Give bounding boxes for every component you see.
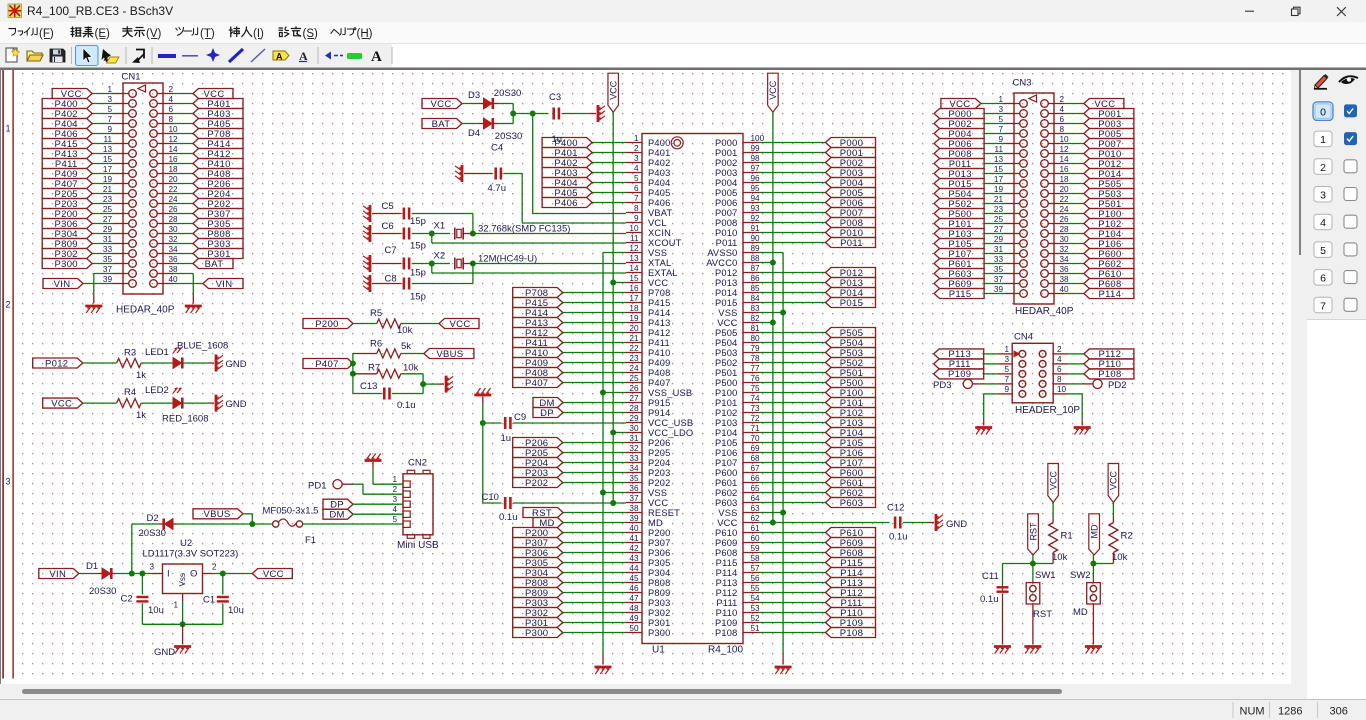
svg-text:HEDAR_40P: HEDAR_40P <box>116 305 175 316</box>
svg-text:P407: P407 <box>525 378 548 389</box>
svg-text:P406: P406 <box>648 198 671 208</box>
svg-text:P108: P108 <box>1098 369 1121 380</box>
svg-text:9: 9 <box>998 135 1003 144</box>
net label P304 (pin 29) + wire <box>92 233 113 235</box>
net label P405 (U1 pin 6) + wire <box>592 192 626 194</box>
svg-text:46: 46 <box>629 584 639 593</box>
svg-text:VCC: VCC <box>768 80 778 100</box>
net label P004 (pin 7) + wire <box>984 133 1004 135</box>
wire U1 pin62 VCC <box>759 522 773 524</box>
wire C1 to gnd rail <box>222 604 224 625</box>
wire node to C9 <box>483 422 502 424</box>
net label P411 (pin 15) + wire <box>92 163 113 165</box>
wire C2 to gnd rail <box>141 604 143 625</box>
wire CN1 pin38 to ground <box>173 273 193 275</box>
net label P407 (pin 19) + wire <box>92 183 113 185</box>
svg-text:15p: 15p <box>410 292 426 303</box>
U1 pin 40 stub/number/name <box>626 532 642 534</box>
svg-text:C13: C13 <box>360 381 377 392</box>
svg-text:P407: P407 <box>648 378 671 388</box>
svg-text:12M(HC49-U): 12M(HC49-U) <box>478 254 537 265</box>
net label P006 (U1 pin 94) + wire <box>759 202 826 204</box>
capacitor C4 <box>494 168 497 180</box>
CN1 pin 14 stub + circle <box>157 153 173 155</box>
CN3 pin 24 stub + circle <box>1048 213 1064 215</box>
ground right of LED2 <box>215 395 218 412</box>
wire gnd-C8 <box>372 283 402 285</box>
U1 pin 23 stub/number/name <box>626 362 642 364</box>
net label P302 (U1 pin 48) + wire <box>563 612 626 614</box>
ground left of C8 <box>369 275 372 292</box>
wire U1 pin63 VSS <box>759 512 783 514</box>
CN3 pin 8 stub + circle <box>1048 133 1064 135</box>
net label P100 (pin 24) + wire <box>1064 213 1084 215</box>
svg-text:P108: P108 <box>715 628 738 638</box>
ground left of C7 <box>369 255 372 272</box>
junction VBUS node <box>249 521 255 527</box>
svg-text:P106: P106 <box>715 448 738 458</box>
junction VCC right rail row82 <box>770 320 776 326</box>
svg-text:32: 32 <box>169 235 179 244</box>
U1 pin 33 stub/number/name <box>626 462 642 464</box>
svg-text:5: 5 <box>392 515 397 524</box>
CN3 pin 32 stub + circle <box>1048 253 1064 255</box>
net label DM (U1 pin 27) + wire <box>563 402 626 404</box>
U1 pin 31 stub/number/name <box>626 442 642 444</box>
svg-text:20S30: 20S30 <box>495 131 522 142</box>
resistor R1 <box>1049 523 1058 553</box>
svg-text:39: 39 <box>994 285 1004 294</box>
wire node down to C10 <box>482 423 484 503</box>
svg-text:34: 34 <box>1060 255 1070 264</box>
wire node to C3 and VBAT rail <box>513 113 548 115</box>
crystal X2 <box>454 258 456 270</box>
svg-text:P403: P403 <box>648 168 671 178</box>
net label P505 (U1 pin 81) + wire <box>759 332 826 334</box>
svg-text:P407: P407 <box>315 359 338 370</box>
svg-text:1u: 1u <box>501 433 512 444</box>
svg-text:2: 2 <box>392 485 397 494</box>
svg-text:18: 18 <box>1060 175 1070 184</box>
svg-text:4: 4 <box>634 164 639 173</box>
ground left of C5 <box>369 205 372 222</box>
wire LED1 to ground <box>183 362 209 364</box>
ground below CN4 right <box>1074 426 1091 429</box>
CN3 pin 25 stub + circle <box>1004 223 1020 225</box>
svg-text:53: 53 <box>751 604 761 613</box>
net label P109 (CN4 pin 5) + wire <box>934 369 984 379</box>
svg-text:40: 40 <box>1060 285 1070 294</box>
svg-text:X1: X1 <box>434 221 446 232</box>
net label P409 (pin 17) + wire <box>92 173 113 175</box>
CN3 pin 34 stub + circle <box>1048 263 1064 265</box>
svg-text:GND: GND <box>226 399 247 410</box>
net label P404 (U1 pin 5) + wire <box>592 182 626 184</box>
CN3 pin 13 stub + circle <box>1004 163 1020 165</box>
svg-text:63: 63 <box>751 504 761 513</box>
svg-text:42: 42 <box>629 544 639 553</box>
svg-text:P203: P203 <box>648 468 671 478</box>
svg-text:LED2: LED2 <box>145 385 169 396</box>
net label P010 (U1 pin 91) + wire <box>759 232 826 234</box>
svg-text:60: 60 <box>751 534 761 543</box>
wire C11 to ground <box>1002 594 1004 645</box>
svg-text:P301: P301 <box>648 618 671 628</box>
net label P108 (CN4 pin 6) + wire <box>1068 373 1084 375</box>
svg-text:33: 33 <box>629 454 639 463</box>
svg-text:26: 26 <box>169 205 179 214</box>
svg-text:51: 51 <box>751 624 761 633</box>
U1 pin 76 stub/number/name <box>743 382 759 384</box>
net label VCC (U2 out) <box>252 569 292 579</box>
U1 pin 97 stub/number/name <box>743 172 759 174</box>
svg-text:P012: P012 <box>715 268 738 278</box>
svg-text:P413: P413 <box>648 318 671 328</box>
net label P103 (U1 pin 72) + wire <box>759 422 826 424</box>
svg-text:25: 25 <box>994 215 1004 224</box>
CN3 pin 22 stub + circle <box>1048 203 1064 205</box>
net label P809 (pin 31) + wire <box>92 243 113 245</box>
CN4 pin 3 stub+number <box>997 363 1012 365</box>
wire input node to U2 <box>132 573 153 575</box>
svg-text:9: 9 <box>634 214 639 223</box>
svg-text:P300: P300 <box>648 628 671 638</box>
CN1 pin 36 stub + circle <box>157 263 173 265</box>
svg-text:P014: P014 <box>715 288 738 298</box>
net label P809 (U1 pin 46) + wire <box>563 592 626 594</box>
CN3 pin 17 stub + circle <box>1004 183 1020 185</box>
svg-text:7: 7 <box>634 194 639 203</box>
svg-text:C5: C5 <box>382 201 394 212</box>
svg-text:U2: U2 <box>180 538 192 549</box>
svg-text:10: 10 <box>629 224 639 233</box>
wire input node up to D2 <box>131 524 133 574</box>
net label P206 (pin 20) + wire <box>173 183 193 185</box>
svg-text:4: 4 <box>392 505 397 514</box>
junction X1 right <box>470 231 476 237</box>
svg-text:VSS: VSS <box>648 488 667 498</box>
U1 pin 48 stub/number/name <box>626 612 642 614</box>
svg-text:22: 22 <box>1060 195 1070 204</box>
CN3 pin 36 stub + circle <box>1048 273 1064 275</box>
regulator U2 body <box>163 564 203 594</box>
svg-text:VSS: VSS <box>648 248 667 258</box>
svg-text:P115: P115 <box>716 558 738 568</box>
U1 pin 38 stub/number/name <box>626 512 642 514</box>
U1 pin 4 stub/number/name <box>626 172 642 174</box>
capacitor C5 <box>403 208 406 220</box>
net label P610 (pin 36) + wire <box>1064 273 1084 275</box>
net label P200 (U1 pin 40) + wire <box>563 532 626 534</box>
CN1 pin 5 stub + circle <box>113 113 129 115</box>
svg-text:VCC: VCC <box>648 498 668 508</box>
net label P008 (pin 11) + wire <box>984 153 1004 155</box>
svg-text:MF050-3x1.5: MF050-3x1.5 <box>263 506 319 517</box>
wire gnd-C6 <box>372 233 402 235</box>
net label P412 (U1 pin 20) + wire <box>563 332 626 334</box>
svg-text:GND: GND <box>946 519 967 530</box>
svg-text:LED1: LED1 <box>145 347 169 358</box>
wire VBAT rail down to U1 pin8 <box>532 114 534 214</box>
svg-text:P107: P107 <box>715 458 738 468</box>
U1 pin 84 stub/number/name <box>743 302 759 304</box>
svg-text:NUM: NUM <box>1240 706 1265 718</box>
CN1 pin 10 stub + circle <box>157 133 173 135</box>
power symbol VCC (R2) <box>1108 464 1119 503</box>
svg-text:89: 89 <box>751 244 761 253</box>
svg-text:98: 98 <box>751 154 761 163</box>
svg-text:CN4: CN4 <box>1014 332 1033 343</box>
connector CN2 (Mini USB) body <box>403 474 433 535</box>
U1 pin 5 stub/number/name <box>626 182 642 184</box>
net label P410 (U1 pin 22) + wire <box>563 352 626 354</box>
svg-text:PD1: PD1 <box>308 481 326 492</box>
svg-text:P915: P915 <box>648 398 671 408</box>
svg-text:VIN: VIN <box>216 279 233 290</box>
U1 pin 64 stub/number/name <box>743 502 759 504</box>
switch SW2 <box>1092 564 1094 583</box>
CN1 pin 35 stub + circle <box>113 263 129 265</box>
U1 pin 71 stub/number/name <box>743 432 759 434</box>
svg-text:6: 6 <box>1057 365 1062 374</box>
svg-text:VCC: VCC <box>1109 471 1119 491</box>
svg-text:37: 37 <box>629 494 639 503</box>
wire D3/D4 cathodes join <box>498 103 514 105</box>
net label P405 (pin 8) + wire <box>173 123 193 125</box>
svg-text:P502: P502 <box>715 358 738 368</box>
CN4 pin 9 stub+number <box>997 393 1012 395</box>
svg-text:54: 54 <box>751 594 761 603</box>
svg-text:P108: P108 <box>840 628 863 639</box>
svg-text:VIN: VIN <box>54 279 71 290</box>
net label DP (U1 pin 28) + wire <box>563 412 626 414</box>
CN1 pin 39 stub + circle <box>113 283 129 285</box>
svg-text:D4: D4 <box>468 128 480 139</box>
svg-text:10k: 10k <box>1112 552 1128 563</box>
CN3 pin 14 stub + circle <box>1048 163 1064 165</box>
net label P005 (U1 pin 95) + wire <box>759 192 826 194</box>
net label P601 (pin 33) + wire <box>984 263 1004 265</box>
svg-text:SW2: SW2 <box>1070 570 1091 581</box>
svg-text:3: 3 <box>392 495 397 504</box>
U1 pin 70 stub/number/name <box>743 442 759 444</box>
svg-text:15: 15 <box>629 274 639 283</box>
svg-text:84: 84 <box>751 294 761 303</box>
U1 pin 15 stub/number/name <box>626 282 642 284</box>
ground right of R7 node <box>445 376 448 393</box>
junction VSS rail row36 <box>600 490 606 496</box>
net label P808 (pin 30) + wire <box>173 233 193 235</box>
net label P003 (pin 6) + wire <box>1064 123 1084 125</box>
CN3 pin 28 stub + circle <box>1048 233 1064 235</box>
svg-text:36: 36 <box>169 255 179 264</box>
svg-text:38: 38 <box>169 265 179 274</box>
svg-text:VCC: VCC <box>609 80 619 100</box>
svg-text:MD: MD <box>1073 607 1088 618</box>
svg-text:4.7u: 4.7u <box>488 183 507 194</box>
net label P301 (U1 pin 49) + wire <box>563 622 626 624</box>
net label P114 (U1 pin 57) + wire <box>759 572 826 574</box>
resistor R5 <box>377 319 401 328</box>
svg-text:VCL: VCL <box>648 218 667 228</box>
svg-text:24: 24 <box>169 195 179 204</box>
svg-text:P003: P003 <box>715 168 738 178</box>
svg-text:65: 65 <box>751 484 761 493</box>
CN3 pin 7 stub + circle <box>1004 133 1020 135</box>
svg-text:P602: P602 <box>715 488 738 498</box>
svg-text:P011: P011 <box>840 238 863 249</box>
U1 pin 52 stub/number/name <box>743 622 759 624</box>
svg-text:D1: D1 <box>86 561 98 572</box>
svg-text:76: 76 <box>751 374 761 383</box>
CN3 pin 35 stub + circle <box>1004 273 1020 275</box>
net label P110 (U1 pin 53) + wire <box>759 612 826 614</box>
svg-text:GND: GND <box>154 647 175 658</box>
wire CN4 pin9 to ground <box>984 393 998 395</box>
LED LED2 <box>173 398 182 409</box>
net label P112 (U1 pin 55) + wire <box>759 592 826 594</box>
junction diode node <box>510 111 516 117</box>
CN1 pin 25 stub + circle <box>113 213 129 215</box>
svg-text:P412: P412 <box>648 328 671 338</box>
wire U2 Vss pin down <box>182 594 184 602</box>
diode D3 <box>480 103 484 105</box>
net label P403 (pin 6) + wire <box>173 113 193 115</box>
CN1 pin 32 stub + circle <box>157 243 173 245</box>
CN1 pin 4 stub + circle <box>157 103 173 105</box>
wire VSS left rail <box>602 253 604 655</box>
wire C2 node down <box>141 574 143 595</box>
net label P408 (pin 18) + wire <box>173 173 193 175</box>
net label P407 + wire <box>303 359 353 369</box>
svg-text:7: 7 <box>998 125 1003 134</box>
svg-text:C2: C2 <box>121 594 133 605</box>
wire node to C10 <box>483 502 502 504</box>
svg-text:P113: P113 <box>716 578 738 588</box>
svg-text:57: 57 <box>751 564 761 573</box>
wire R1 to RST node <box>1052 553 1054 564</box>
svg-text:1: 1 <box>6 124 11 134</box>
wire node to ground <box>423 383 437 385</box>
U1 pin 60 stub/number/name <box>743 542 759 544</box>
CN3 pin 6 stub + circle <box>1048 123 1064 125</box>
wire U1 pin15 VCC <box>613 282 626 284</box>
wire node2 to R7 <box>353 373 377 375</box>
svg-text:9: 9 <box>1004 385 1009 394</box>
U1 pin 81 stub/number/name <box>743 332 759 334</box>
svg-text:75: 75 <box>751 384 761 393</box>
wire U1 pin26 VSS_USB <box>603 392 626 394</box>
svg-text:74: 74 <box>751 394 761 403</box>
CN4 pin 2 stub+number <box>1053 353 1068 355</box>
CN4 pin 10 stub+number <box>1053 393 1068 395</box>
svg-text:C11: C11 <box>982 571 999 582</box>
svg-text:25: 25 <box>103 205 113 214</box>
svg-text:VSS_USB: VSS_USB <box>648 388 692 398</box>
svg-text:6: 6 <box>1320 272 1326 284</box>
ground right of C12 <box>935 514 938 531</box>
svg-text:69: 69 <box>751 444 761 453</box>
CN3 pin 26 stub + circle <box>1048 223 1064 225</box>
svg-text:RST: RST <box>1033 609 1052 620</box>
net label P101 (U1 pin 74) + wire <box>759 402 826 404</box>
svg-text:VBUS: VBUS <box>203 509 230 520</box>
connector CN1 (HEDAR_40P) <box>42 72 243 316</box>
svg-text:52: 52 <box>751 614 761 623</box>
net label P305 (pin 28) + wire <box>173 223 193 225</box>
wire EXTAL elbow <box>431 264 433 274</box>
svg-text:32: 32 <box>629 444 639 453</box>
ground right of C3 <box>597 105 600 122</box>
resistor R7 <box>377 369 401 378</box>
svg-text:P109: P109 <box>948 369 971 380</box>
junction VCC rail row15 <box>610 280 616 286</box>
svg-text:1: 1 <box>1004 345 1009 354</box>
wire node1-node2 <box>352 364 354 374</box>
CN1 pin 2 stub + circle <box>157 93 173 95</box>
svg-text:10k: 10k <box>397 325 413 336</box>
wire SW2 to ground <box>1092 604 1094 645</box>
CN3 pin 19 stub + circle <box>1004 193 1020 195</box>
net label P109 (U1 pin 52) + wire <box>759 622 826 624</box>
net label P105 (U1 pin 70) + wire <box>759 442 826 444</box>
svg-text:29: 29 <box>994 235 1004 244</box>
svg-text:29: 29 <box>629 414 639 423</box>
wire LED2 to ground <box>183 402 209 404</box>
net label P401 (pin 4) + wire <box>173 103 193 105</box>
svg-text:C1: C1 <box>203 595 215 606</box>
svg-text:P202: P202 <box>525 478 548 489</box>
net label P005 (pin 8) + wire <box>1064 133 1084 135</box>
svg-text:18: 18 <box>169 165 179 174</box>
svg-text:77: 77 <box>751 364 761 373</box>
CN2 pin 3 box <box>403 501 410 507</box>
svg-text:P101: P101 <box>715 398 738 408</box>
U1 pin 47 stub/number/name <box>626 602 642 604</box>
svg-text:4: 4 <box>1060 105 1065 114</box>
svg-text:P001: P001 <box>715 148 738 158</box>
wire C13 loop left <box>353 393 382 395</box>
wire R2 to MD node <box>1112 553 1114 564</box>
svg-text:P609: P609 <box>715 538 738 548</box>
capacitor C8 <box>403 278 406 290</box>
svg-text:27: 27 <box>103 215 113 224</box>
CN2 pin 1 box <box>403 481 410 487</box>
svg-text:64: 64 <box>751 494 761 503</box>
svg-text:D2: D2 <box>147 513 159 524</box>
svg-text:Vss: Vss <box>178 573 187 586</box>
U1 pin 88 stub/number/name <box>743 262 759 264</box>
wire AVSS0/VSS right rail <box>782 253 784 655</box>
svg-text:GND: GND <box>226 359 247 370</box>
net label P204 (U1 pin 33) + wire <box>563 462 626 464</box>
svg-text:VCC_LDO: VCC_LDO <box>648 428 693 438</box>
svg-text:25: 25 <box>629 374 639 383</box>
wire CN4 pin10 to ground <box>1068 393 1082 395</box>
capacitor C7 <box>403 258 406 270</box>
svg-text:VSS: VSS <box>718 508 737 518</box>
svg-text:P410: P410 <box>648 348 671 358</box>
svg-text:P115: P115 <box>949 289 972 300</box>
net label P503 (U1 pin 79) + wire <box>759 352 826 354</box>
U1 pin 91 stub/number/name <box>743 232 759 234</box>
junction VCC right rail row62 <box>770 520 776 526</box>
svg-text:32.768k(SMD FC135): 32.768k(SMD FC135) <box>478 224 570 235</box>
net label P501 (U1 pin 77) + wire <box>759 372 826 374</box>
U1 pin 45 stub/number/name <box>626 582 642 584</box>
svg-text:P610: P610 <box>715 528 738 538</box>
net label P002 (pin 5) + wire <box>984 123 1004 125</box>
